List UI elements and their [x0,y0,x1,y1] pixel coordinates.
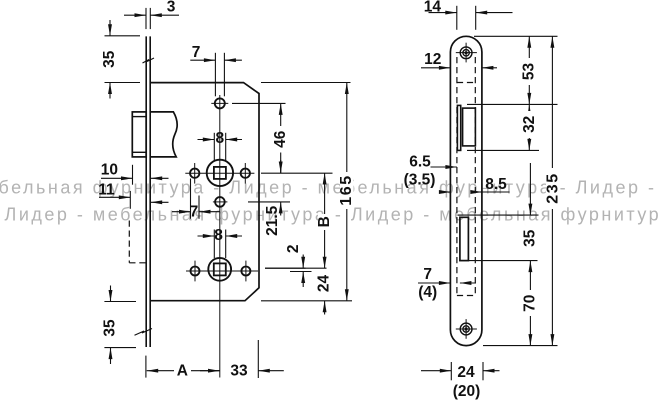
case dashed left [456,57,458,296]
dim 53 label [523,58,536,85]
dim 8l arrow right [226,235,242,237]
row2 left hole crosshair v [194,261,196,282]
follower 1 square [214,167,226,179]
case dashed bottom [457,295,475,297]
svg-text:35: 35 [521,229,538,247]
dim 21.5 arrow top [280,160,282,173]
dim 3 ticks [145,8,147,29]
dim A ext left [145,356,147,378]
dim 11 line [99,196,130,198]
dim 8l arrow left [198,235,215,237]
svg-text:14: 14 [424,0,442,15]
row1 left hole crosshair v [194,163,196,184]
ext follower1 right [261,172,333,174]
dim 12 arrow left [421,67,450,69]
deadbolt thrown dashed outline [128,221,130,263]
dim 46 arrow top [279,103,283,115]
dim 2 ext upper [265,267,306,269]
deadbolt slot [460,217,469,260]
latch bolt head lip bottom [132,151,146,153]
dim 7t arrow left [190,59,215,61]
svg-text:70: 70 [521,295,538,312]
dim 14 arrow right [476,12,513,14]
ext slot top [458,214,539,216]
dim A arrow right [208,369,220,373]
dim 12 arrow right [482,67,497,69]
top screw hole inner [463,50,469,56]
svg-text:8: 8 [215,130,224,147]
svg-text:(20): (20) [453,383,481,400]
svg-text:24: 24 [457,364,475,381]
dim 165 line [346,83,348,301]
ext slot bottom [469,260,538,262]
dim 3 line left [124,14,146,16]
dim 35b arrow bottom [110,348,112,364]
dim 14 ext lines [456,6,458,30]
dim 7m arrow right [199,211,220,213]
dim 235 line [551,36,553,345]
svg-text:46: 46 [272,130,289,148]
top hole [215,98,225,108]
row2 right hole [241,267,250,276]
dim 35r arrow top [529,163,531,215]
dim 7m arrow left [172,211,191,213]
ext latch top [467,103,558,105]
svg-text:(4): (4) [418,284,437,301]
dim 8.5 ext [482,191,510,193]
svg-text:165: 165 [338,174,355,206]
dim 35t ext top [105,35,141,37]
top screw hole outer [460,47,472,59]
ext plate top [474,35,558,37]
dim 11 arrow at faceplate [151,201,169,203]
dim A label [174,362,191,379]
svg-text:32: 32 [521,116,538,133]
dim 10 tick [132,165,134,185]
dim B arrow top [323,173,327,185]
top screw hole crosshair [456,52,477,54]
dim 33 ext right [257,340,259,378]
svg-text:10: 10 [101,162,118,179]
dim 35t arrow bottom [109,83,111,99]
top screw hole center dot [465,51,468,54]
vertical centerline [219,95,221,378]
dim 21.5 ext [248,201,290,203]
dim B ext bottom [265,267,327,269]
svg-text:3: 3 [167,0,176,16]
dim 32 label [523,111,536,138]
dim 14 arrow left [429,12,457,14]
row2 centerline h [186,270,258,272]
svg-text:2: 2 [285,244,302,253]
row2 right hole crosshair v [245,261,247,282]
dim 10 arrow at faceplate [151,177,169,179]
dim 2 ext lower [290,271,312,273]
middle hole [215,197,225,207]
dim B label [318,214,332,230]
dim 2 arrow bottom [302,272,304,288]
svg-text:35: 35 [101,50,118,68]
dim 46 label [274,126,288,153]
dim 46 arrow bottom [279,162,283,174]
svg-text:B: B [316,216,333,227]
dim 35b arrow top [110,286,112,302]
svg-text:33: 33 [230,362,248,379]
latch bolt head [132,112,146,157]
dim 10 line [101,177,133,179]
svg-text:A: A [177,362,188,379]
row1 left hole [190,169,199,178]
svg-text:6.5: 6.5 [409,154,431,171]
svg-text:(3.5): (3.5) [404,171,436,188]
dim 21.5 arrow bottom [280,202,282,216]
dim 32 arrow top [527,104,531,116]
dim 24 arrow bottom [324,301,326,315]
dim B line [324,173,326,268]
faceplate front outline [450,36,482,345]
dim 3 line right [150,14,179,16]
dim B arrow bottom [323,257,327,269]
dim 46 ext top [232,102,286,104]
svg-text:35: 35 [102,319,119,337]
faceplate right edge [149,36,151,347]
dim 53 arrow bottom [527,93,531,105]
dim 35t arrow top [109,20,111,36]
lock body outline [150,83,259,301]
svg-text:53: 53 [521,63,538,81]
dim 32 line [528,104,530,150]
latch bolt body [150,112,177,157]
dim 33 arrow left [200,370,220,372]
dim 165 arrow bottom [345,289,349,301]
dim 8.5 arrow right [471,191,482,193]
dim 165 arrow top [345,83,349,95]
svg-text:11: 11 [98,182,115,199]
dim 7b arrow left [418,282,450,284]
faceplate break mark top [143,58,155,63]
dim 35b ext top [104,301,136,303]
svg-text:8.5: 8.5 [485,176,507,193]
follower 2 circle [208,258,231,281]
deadbolt thrown dashed bottom [129,262,146,264]
dim 235 arrow top [550,36,554,48]
dim 165 label [340,172,354,209]
dim A arrow left [147,369,159,373]
latch bolt head lip top [132,116,146,118]
row1 centerline h [185,172,254,174]
ext plate bottom [483,345,558,347]
dim 24b arrow right [483,370,500,372]
row1 right hole crosshair v [244,163,246,184]
dim 35r arrow bottom [529,261,531,290]
middle hole crosshair h [213,201,228,203]
svg-text:12: 12 [424,51,441,68]
dim 235 arrow bottom [550,334,554,346]
follower 2 square [214,263,226,275]
case dashed right [474,57,476,296]
ext latch bottom [467,149,539,151]
dim 24b ticks [450,362,452,380]
faceplate left edge [145,36,147,347]
dim 2 arrow top [302,255,304,269]
dim 8u arrow left [198,139,215,141]
dim 46 line [280,103,282,173]
dim 7t arrow right [224,59,242,61]
bottom screw hole outer [460,323,472,335]
dim 235 label [546,168,560,209]
svg-text:8: 8 [214,227,223,244]
bottom screw hole crosshair [456,328,477,330]
dim 33 arrow right [258,370,284,372]
svg-text:24: 24 [316,275,333,293]
svg-text:7: 7 [192,44,201,61]
dim 53 line [528,36,530,104]
svg-text:21.5: 21.5 [264,205,281,236]
dim 11 tick [129,191,131,209]
dim A line [147,370,220,372]
dim 6.5 arrow [431,166,457,168]
dim 35t ext bottom [105,82,141,84]
svg-text:7: 7 [423,266,432,283]
bottom screw hole inner [463,326,469,332]
row2 left hole [191,267,200,276]
latch opening strip [457,105,460,150]
dim 8u ext lines [213,133,215,161]
dim 165 ext bottom right [261,300,352,302]
bottom screw hole center dot [465,327,468,330]
dim 8u arrow right [226,139,242,141]
dim 8.5 arrow left [441,191,450,193]
dim 53 arrow top [527,36,531,48]
dim 24b arrow left [421,370,451,372]
row1 right hole [241,169,250,178]
dim 70 arrow bottom [529,316,531,346]
svg-text:235: 235 [545,172,562,204]
dim 165 ext top right [261,82,351,84]
dim 8l ext lines [213,230,215,259]
dim 7m ext lines [190,179,192,219]
dim 7b arrow right [460,282,476,284]
dim 7t ext lines [214,53,216,97]
dim 32 arrow bottom [527,139,531,151]
latch face rect [463,108,476,146]
follower 1 circle [207,160,233,186]
svg-text:7: 7 [190,203,199,220]
case dashed top [457,82,475,84]
dim 35b ext bottom [104,347,136,349]
faceplate break mark bottom [135,329,153,336]
top hole crosshair h [211,102,228,104]
